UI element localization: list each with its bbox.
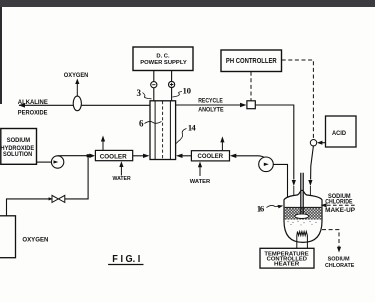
- svg-text:PH CONTROLLER: PH CONTROLLER: [226, 58, 277, 65]
- arrowhead: into left cooler: [90, 154, 96, 159]
- dashed wire: controller to sensor: [250, 72, 252, 101]
- svg-text:6: 6: [139, 119, 144, 129]
- arrowhead: into right cooler from pump P2: [230, 154, 237, 158]
- label 10 with leader: [173, 86, 192, 98]
- wire: pump P2 outlet to right cooler: [234, 156, 264, 158]
- wire: acid feed down to vessel: [311, 146, 314, 180]
- arrowhead: oxygen vent: [75, 79, 79, 85]
- liquid speckle dots: [288, 221, 317, 226]
- wire: supply positive lead: [171, 71, 173, 101]
- box: left cooler: [95, 150, 132, 160]
- scan top bar: [0, 0, 375, 7]
- dashed wire: product to sodium chlorate: [322, 230, 339, 248]
- svg-text:10: 10: [183, 86, 192, 96]
- wire: pump P1 outlet to cooler: [58, 155, 91, 157]
- arrowhead: right water in: [198, 162, 202, 168]
- text sodium chloride make-up: [325, 193, 355, 214]
- pH sensor square: [247, 101, 255, 109]
- wire: recycle tail inside vessel: [293, 186, 295, 205]
- electrolytic cell 14: [150, 101, 176, 160]
- svg-text:OXYGEN: OXYGEN: [22, 238, 48, 244]
- wire: oxygen vent up: [76, 82, 78, 97]
- svg-text:OXYGEN: OXYGEN: [64, 72, 89, 79]
- box: temperature controlled heater: [260, 248, 314, 268]
- wire: right water in: [199, 166, 201, 176]
- wire: acid to valve: [320, 142, 326, 144]
- terminal circle plus: [169, 81, 175, 87]
- wire: recycle line to vessel: [255, 105, 293, 180]
- arrowhead: recycle to sensor: [240, 103, 247, 107]
- terminal circle minus: [151, 82, 157, 88]
- svg-text:ALKALINE: ALKALINE: [18, 100, 48, 106]
- wire: valve to oxygen box: [7, 199, 53, 216]
- liquid cross-hatch: [285, 207, 322, 219]
- arrowhead: left vent: [101, 136, 105, 142]
- gas-liquid separator oval: [73, 96, 81, 111]
- svg-text:CHLORIDE: CHLORIDE: [325, 199, 352, 206]
- svg-text:SOLUTION: SOLUTION: [3, 152, 32, 158]
- svg-text:16: 16: [257, 204, 265, 214]
- wire: catholyte product line to separator: [19, 104, 150, 106]
- arrowhead: acid into valve: [317, 141, 323, 145]
- svg-text:HEATER: HEATER: [274, 262, 299, 268]
- box: acid: [326, 116, 357, 147]
- svg-text:3: 3: [137, 88, 142, 98]
- box: oxygen supply: [0, 216, 16, 258]
- wire: right cooler to cell: [182, 155, 192, 157]
- dashed wire: controller to acid valve: [282, 60, 314, 140]
- vessel 16 outline: [284, 190, 322, 242]
- arrowhead: acid into vessel: [308, 180, 312, 186]
- box: pH controller: [221, 50, 282, 72]
- arrowhead: recycle into vessel: [292, 180, 296, 186]
- svg-text:WATER: WATER: [113, 176, 131, 182]
- box: D.C. power supply: [133, 47, 193, 71]
- label 14 with leader: [176, 122, 196, 143]
- arrowhead: left water in: [119, 161, 123, 167]
- arrowhead: into cell right: [176, 154, 183, 158]
- svg-text:RECYCLE: RECYCLE: [198, 99, 223, 105]
- svg-text:MAKE-UP: MAKE-UP: [325, 207, 355, 214]
- label 3 with leader: [137, 88, 152, 99]
- arrowhead: into cell left: [143, 154, 150, 158]
- wire: left cooler to cell: [133, 155, 144, 157]
- box: right cooler: [191, 151, 229, 161]
- pump P1: [51, 156, 63, 168]
- wire: left water in: [120, 166, 122, 176]
- wire: recycle anolyte line: [176, 104, 243, 106]
- svg-text:F I G. I: F I G. I: [112, 254, 140, 265]
- svg-text:ACID: ACID: [332, 130, 346, 137]
- svg-text:POWER SUPPLY: POWER SUPPLY: [140, 60, 187, 66]
- svg-text:COOLER: COOLER: [100, 153, 127, 160]
- text sodium chlorate: [325, 256, 355, 269]
- svg-text:D. C.: D. C.: [156, 54, 170, 60]
- wire: oxygen branch down: [65, 156, 88, 199]
- scan left edge strip: [0, 7, 2, 104]
- arrowhead: alkaline peroxide out (left): [19, 103, 26, 108]
- svg-text:HYDROXIDE: HYDROXIDE: [1, 146, 35, 152]
- svg-text:14: 14: [188, 122, 197, 132]
- center dip tube: [301, 173, 303, 215]
- svg-text:CHLORATE: CHLORATE: [325, 263, 355, 269]
- label 16 with leader: [257, 204, 284, 214]
- dashed arrow: make-up into vessel: [327, 204, 357, 206]
- wire: pump P2 suction from vessel: [273, 164, 287, 205]
- wire: left cooler vent up: [102, 141, 104, 151]
- valve (bowtie): [49, 195, 65, 202]
- svg-text:PEROXIDE: PEROXIDE: [18, 110, 48, 116]
- arrowhead: sodium chlorate out: [337, 247, 341, 253]
- sparger ellipse: [295, 214, 309, 219]
- svg-text:ANOLYTE: ANOLYTE: [198, 107, 223, 113]
- acid control valve circle: [310, 140, 316, 146]
- svg-text:COOLER: COOLER: [198, 153, 224, 160]
- wire: supply negative lead: [153, 71, 155, 101]
- label 6 with leader: [139, 119, 162, 129]
- junction dot: [87, 154, 90, 157]
- wire: acid tail inside vessel: [309, 186, 311, 205]
- wire: NaOH box to pump P1: [37, 161, 52, 163]
- svg-text:SODIUM: SODIUM: [7, 138, 30, 144]
- arrowhead: right vent: [220, 136, 224, 142]
- svg-text:WATER: WATER: [190, 179, 210, 185]
- pump P2: [259, 157, 274, 172]
- box: sodium hydroxide solution: [1, 129, 37, 165]
- wire: right cooler vent up: [221, 142, 223, 151]
- figure label FIG. I: [108, 254, 143, 265]
- svg-text:SODIUM: SODIUM: [328, 256, 350, 262]
- heater element coil: [297, 232, 308, 249]
